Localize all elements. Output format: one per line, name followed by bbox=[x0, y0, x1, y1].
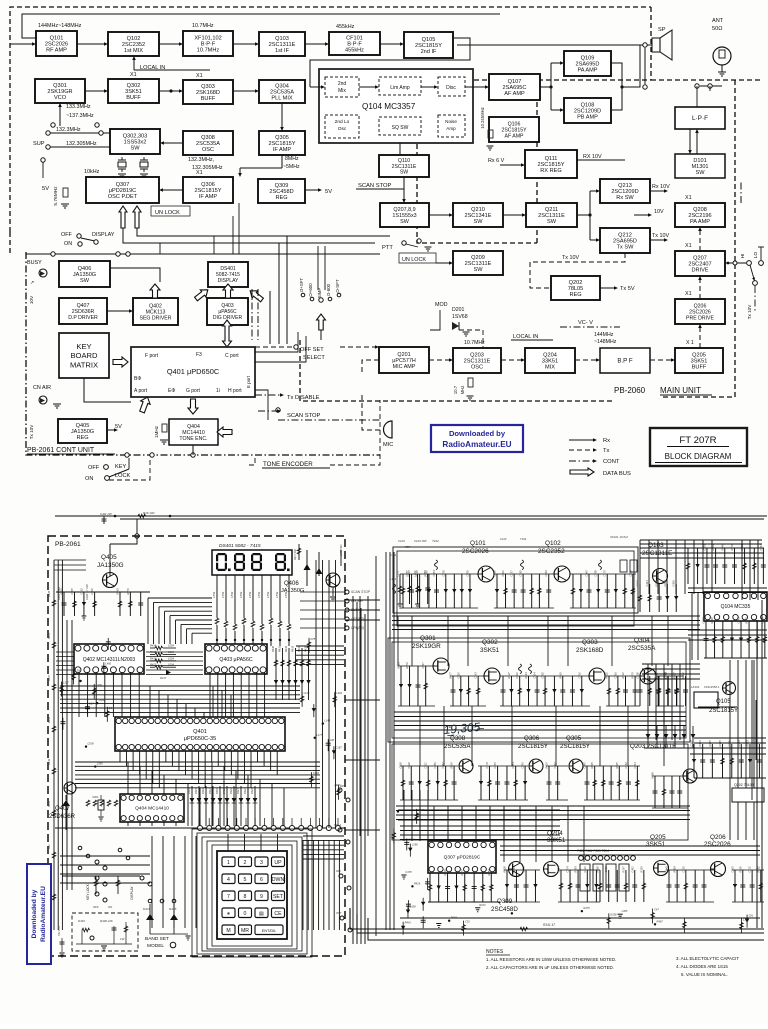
wire Q104 bottom to Q110 bbox=[399, 143, 401, 155]
svg-text:C350: C350 bbox=[433, 762, 437, 769]
svg-text:2SC1209D: 2SC1209D bbox=[574, 109, 601, 115]
svg-text:R242: R242 bbox=[636, 580, 640, 587]
svg-text:R114: R114 bbox=[621, 672, 625, 679]
svg-text:2SC1311E: 2SC1311E bbox=[538, 213, 565, 219]
wire Q405 collector up bbox=[109, 544, 111, 576]
svg-text:D416: D416 bbox=[202, 788, 205, 794]
svg-text:C165: C165 bbox=[519, 570, 523, 577]
svg-text:2SC2026: 2SC2026 bbox=[45, 42, 68, 48]
svg-text:C235: C235 bbox=[727, 740, 731, 747]
svg-text:C314: C314 bbox=[557, 866, 561, 873]
dashed border PB-2061 schematic bbox=[48, 536, 345, 956]
resistor network R414-R419 between ICs bbox=[150, 644, 176, 681]
wire keyboard down bbox=[84, 378, 131, 402]
wire Q101 to Q102 bbox=[77, 43, 105, 45]
IC Q404 MC14410 tone encoder bbox=[120, 794, 184, 822]
MIC symbol bbox=[384, 421, 392, 438]
svg-text:C41 0.01: C41 0.01 bbox=[58, 925, 61, 936]
svg-text:R41: R41 bbox=[48, 844, 51, 849]
block Q304 PLL MIX bbox=[259, 80, 305, 103]
svg-text:C392: C392 bbox=[636, 672, 640, 679]
svg-text:2SK19GR: 2SK19GR bbox=[412, 643, 441, 650]
svg-text:UN LOCK: UN LOCK bbox=[155, 210, 180, 216]
svg-text:Tx 10V: Tx 10V bbox=[652, 233, 669, 239]
block Q209 SW bbox=[453, 251, 503, 275]
svg-text:Q101: Q101 bbox=[470, 540, 486, 547]
svg-text:2SC2026: 2SC2026 bbox=[462, 548, 489, 555]
svg-text:AF AMP: AF AMP bbox=[504, 91, 525, 97]
svg-text:O-600: O-600 bbox=[326, 283, 331, 296]
block Q302 BUFF bbox=[108, 79, 159, 103]
svg-text:10.7MHz: 10.7MHz bbox=[197, 48, 220, 54]
svg-text:R105: R105 bbox=[738, 866, 742, 873]
svg-text:C481: C481 bbox=[630, 866, 634, 873]
svg-text:Q210: Q210 bbox=[471, 207, 485, 213]
PLL section box bbox=[388, 638, 690, 742]
block Q110 SW bbox=[379, 155, 429, 177]
wire Q407 to Q402 bbox=[107, 310, 130, 312]
svg-text:XF101,102: XF101,102 bbox=[194, 35, 221, 41]
svg-text:AF AMP: AF AMP bbox=[504, 133, 524, 139]
svg-text:2nd: 2nd bbox=[338, 81, 347, 87]
svg-text:Q202 78L05: Q202 78L05 bbox=[734, 783, 754, 787]
title box FT 207R BLOCK DIAGRAM bbox=[650, 428, 747, 466]
svg-text:C308: C308 bbox=[493, 570, 497, 577]
svg-text:TONE ENCODER: TONE ENCODER bbox=[263, 461, 313, 468]
keypad outer box bbox=[217, 851, 287, 939]
svg-text:2SC2407: 2SC2407 bbox=[688, 262, 711, 268]
block Q302-303 diode SW bbox=[110, 129, 160, 154]
svg-text:CONT: CONT bbox=[603, 459, 620, 465]
crystal X401 near Q404 bbox=[98, 800, 104, 810]
svg-text:MHz: MHz bbox=[460, 386, 465, 395]
inner Noise Amp bbox=[438, 115, 465, 137]
svg-text:1/8W: 1/8W bbox=[257, 591, 261, 598]
svg-text:R422: R422 bbox=[605, 672, 609, 679]
svg-text:Q105: Q105 bbox=[716, 699, 731, 705]
svg-text:PA AMP: PA AMP bbox=[577, 68, 597, 74]
svg-text:C179: C179 bbox=[485, 762, 489, 769]
svg-text:Q104 MC3357: Q104 MC3357 bbox=[362, 102, 416, 111]
svg-text:D336: D336 bbox=[610, 912, 617, 916]
block Q406 SW bbox=[59, 261, 110, 287]
svg-text:R432: R432 bbox=[285, 645, 288, 652]
svg-text:MIX: MIX bbox=[545, 365, 555, 371]
wire Q207-9 to Q210 bbox=[429, 214, 450, 216]
horizontal feeder lines from left column to display region bbox=[0, 0, 1, 1]
wire Q206 to Q207 to Q208 bbox=[699, 279, 701, 299]
hollow arrows from Q307 down bbox=[119, 206, 127, 228]
Q202 regulator box bbox=[732, 788, 764, 802]
svg-text:C315: C315 bbox=[731, 866, 735, 873]
svg-text:R441: R441 bbox=[681, 672, 685, 679]
center bottom mesh bbox=[398, 806, 560, 840]
svg-text:Tx DISABLE: Tx DISABLE bbox=[287, 395, 320, 401]
keypad column wires to connector bbox=[228, 834, 278, 851]
svg-text:L210: L210 bbox=[304, 691, 310, 695]
key lock display switch circles bbox=[86, 860, 152, 909]
svg-text:BLOCK DIAGRAM: BLOCK DIAGRAM bbox=[665, 452, 732, 461]
right column Q103-Q104 region verticals bbox=[640, 540, 764, 594]
svg-text:LO: LO bbox=[753, 252, 759, 259]
svg-text:OFF: OFF bbox=[61, 232, 72, 238]
svg-text:D410: D410 bbox=[78, 919, 85, 923]
svg-text:C352: C352 bbox=[541, 672, 545, 679]
Q307 bottom parts bbox=[429, 873, 431, 902]
svg-text:↗: ↗ bbox=[30, 280, 34, 286]
svg-text:RadioAmateur.EU: RadioAmateur.EU bbox=[40, 886, 47, 942]
svg-text:SP: SP bbox=[658, 27, 666, 33]
block Q403 DIG DRIVER bbox=[207, 298, 248, 325]
svg-text:BUFF: BUFF bbox=[201, 96, 216, 102]
svg-text:C401 0.001: C401 0.001 bbox=[57, 586, 61, 600]
svg-text:R283: R283 bbox=[655, 580, 659, 587]
svg-text:33K51: 33K51 bbox=[547, 837, 566, 844]
svg-text:L·P·F: L·P·F bbox=[692, 115, 708, 122]
svg-text:CF101: CF101 bbox=[346, 35, 363, 41]
svg-text:DISPLAY: DISPLAY bbox=[92, 232, 115, 238]
svg-text:L402: L402 bbox=[336, 691, 342, 695]
fourth row drops bbox=[504, 869, 540, 871]
svg-text:1SV68: 1SV68 bbox=[452, 314, 468, 320]
svg-text:C491: C491 bbox=[577, 672, 581, 679]
svg-text:R185: R185 bbox=[418, 808, 425, 812]
svg-text:R143: R143 bbox=[524, 672, 528, 679]
svg-text:X1: X1 bbox=[685, 243, 692, 249]
svg-text:C151: C151 bbox=[604, 866, 608, 873]
svg-text:Q304: Q304 bbox=[634, 637, 650, 644]
double bus lines bottom bbox=[350, 908, 764, 929]
mesh under PLL row bbox=[394, 712, 686, 730]
wire Q110 down to Q207 block bbox=[403, 177, 405, 200]
svg-text:R454: R454 bbox=[487, 869, 491, 876]
ground bus under fourth row bbox=[400, 917, 760, 919]
svg-text:S07-A: S07-A bbox=[334, 823, 341, 827]
extra long verticals mid bottom bbox=[504, 806, 584, 862]
extra left column parts of PB-2060 bbox=[397, 810, 399, 812]
svg-text:2SC1311E: 2SC1311E bbox=[465, 261, 492, 267]
svg-text:~5MHz: ~5MHz bbox=[283, 164, 300, 170]
wire dashed right border PB-2060 bbox=[418, 79, 651, 81]
svg-text:2SC1209D: 2SC1209D bbox=[611, 189, 638, 195]
outer dashed frame of block diagram bbox=[10, 7, 651, 232]
right column verticals PB-2061 bbox=[316, 560, 336, 828]
block Q301 VCO bbox=[35, 79, 85, 103]
svg-text:C247: C247 bbox=[421, 662, 425, 669]
svg-text:C330: C330 bbox=[613, 672, 617, 679]
top right corner drops bbox=[687, 548, 689, 584]
svg-text:C402 4.7 10V: C402 4.7 10V bbox=[85, 584, 89, 600]
svg-text:R153: R153 bbox=[479, 903, 486, 907]
svg-text:C110: C110 bbox=[500, 537, 507, 541]
svg-text:R430: R430 bbox=[272, 645, 275, 652]
svg-text:Downloaded by: Downloaded by bbox=[31, 889, 38, 938]
scattered parts left mid bbox=[60, 686, 64, 692]
svg-text:SQ SW: SQ SW bbox=[392, 125, 409, 131]
svg-text:10.245MHz: 10.245MHz bbox=[480, 107, 485, 128]
svg-text:1/8W: 1/8W bbox=[230, 591, 234, 598]
svg-text:1/8W: 1/8W bbox=[266, 591, 270, 598]
inner 2nd Mix bbox=[325, 77, 359, 97]
svg-text:RF AMP: RF AMP bbox=[46, 48, 67, 54]
wire XF101 to Q103 bbox=[233, 43, 256, 45]
svg-text:10kHz: 10kHz bbox=[84, 169, 100, 175]
svg-text:C258: C258 bbox=[423, 570, 427, 577]
block Q404 TONE ENC bbox=[169, 419, 218, 445]
svg-text:D415: D415 bbox=[169, 907, 177, 911]
connector row T401 T402 F303 T304 bbox=[577, 849, 635, 860]
svg-text:BOARD: BOARD bbox=[70, 351, 98, 360]
svg-text:Q307 μPD2819C: Q307 μPD2819C bbox=[444, 855, 481, 861]
svg-text:50Ω: 50Ω bbox=[712, 26, 722, 32]
svg-text:C250: C250 bbox=[521, 762, 525, 769]
svg-text:Q207: Q207 bbox=[693, 255, 707, 261]
transformer boxes bbox=[580, 864, 629, 891]
svg-text:O+SFT: O+SFT bbox=[299, 278, 304, 293]
Q405 bias drops bbox=[63, 592, 65, 616]
data bus line from Q307 region to right bbox=[123, 228, 375, 243]
stair from hmesh into Q401 top bbox=[150, 686, 231, 717]
svg-text:133.3MHz: 133.3MHz bbox=[66, 104, 91, 110]
svg-text:Tx 10V: Tx 10V bbox=[562, 255, 579, 261]
block D101 SW bbox=[675, 154, 725, 178]
svg-text:9: 9 bbox=[260, 894, 263, 900]
svg-text:C313: C313 bbox=[522, 866, 526, 873]
wire Q109/Q108 join to speaker bbox=[611, 63, 622, 87]
hollow arrow Q401 to Q404 bbox=[188, 399, 198, 414]
svg-text:R253: R253 bbox=[745, 740, 749, 747]
svg-text:μPD2819C: μPD2819C bbox=[109, 188, 136, 194]
svg-text:R475: R475 bbox=[583, 906, 590, 910]
svg-text:C332: C332 bbox=[407, 762, 411, 769]
svg-text:RX 10V: RX 10V bbox=[583, 154, 602, 160]
svg-text:A port: A port bbox=[134, 388, 148, 394]
svg-text:R188: R188 bbox=[558, 672, 562, 679]
svg-text:2SC1815Y: 2SC1815Y bbox=[537, 162, 564, 168]
extra rails above fourth row bbox=[500, 846, 760, 855]
verticals from bus down to keyboard connector bbox=[128, 762, 284, 826]
svg-text:CE: CE bbox=[274, 911, 282, 917]
svg-text:2SC535A: 2SC535A bbox=[444, 743, 471, 750]
svg-text:R417: R417 bbox=[150, 663, 157, 667]
cap near band set box bbox=[58, 925, 65, 957]
svg-text:2SC2352: 2SC2352 bbox=[538, 548, 565, 555]
svg-text:VC- V: VC- V bbox=[578, 320, 593, 326]
svg-text:B.P F: B.P F bbox=[617, 358, 633, 365]
svg-text:Q405: Q405 bbox=[76, 423, 90, 429]
svg-text:Q302: Q302 bbox=[127, 83, 141, 89]
svg-text:KEY: KEY bbox=[76, 342, 91, 351]
svg-text:D423: D423 bbox=[251, 788, 254, 794]
svg-text:C482: C482 bbox=[99, 698, 106, 702]
svg-text:Q306: Q306 bbox=[201, 182, 215, 188]
gap wires between units bbox=[345, 596, 380, 836]
svg-text:2SA695C: 2SA695C bbox=[503, 85, 527, 91]
right column mid verticals bbox=[730, 660, 762, 840]
svg-text:455kHz: 455kHz bbox=[336, 24, 355, 30]
svg-text:X1: X1 bbox=[196, 170, 203, 176]
svg-text:Q302: Q302 bbox=[482, 639, 498, 646]
svg-text:R372: R372 bbox=[405, 662, 409, 669]
svg-text:FT 207R: FT 207R bbox=[679, 435, 716, 446]
svg-text:MAIN UNIT: MAIN UNIT bbox=[660, 386, 701, 395]
svg-text:RadioAmateur.EU: RadioAmateur.EU bbox=[442, 440, 511, 449]
wire Q404 tone out bbox=[192, 445, 194, 455]
svg-text:Q208: Q208 bbox=[693, 207, 707, 213]
svg-text:1MHz: 1MHz bbox=[154, 425, 159, 438]
svg-text:L266: L266 bbox=[97, 762, 103, 766]
IC Q403 digit driver bbox=[205, 644, 267, 674]
block Q208 PA AMP bbox=[675, 203, 725, 227]
inner Disc bbox=[438, 77, 465, 96]
svg-text:Q404 MC14410: Q404 MC14410 bbox=[135, 806, 169, 812]
svg-text:C321: C321 bbox=[424, 762, 428, 769]
svg-text:BUSY: BUSY bbox=[27, 260, 42, 266]
svg-text:2SC1815Y: 2SC1815Y bbox=[268, 141, 295, 147]
svg-text:C366: C366 bbox=[702, 617, 706, 624]
block Q106 AF AMP bbox=[489, 117, 539, 142]
horizontal bus under Q401 bbox=[75, 762, 320, 788]
scattered parts fourth row bbox=[607, 917, 611, 923]
block Q307 OSC P.DET bbox=[86, 177, 159, 203]
svg-text:R127: R127 bbox=[507, 672, 511, 679]
svg-text:G port: G port bbox=[186, 388, 201, 394]
double-headed data arrow Q403 to Q401 bbox=[223, 320, 232, 347]
svg-text:7: 7 bbox=[227, 894, 230, 900]
svg-text:4. ALL DIODES ARE 1S15: 4. ALL DIODES ARE 1S15 bbox=[676, 964, 728, 969]
svg-text:CAR 1W: CAR 1W bbox=[100, 512, 113, 516]
svg-text:C131: C131 bbox=[748, 866, 752, 873]
svg-text:Q309: Q309 bbox=[275, 183, 289, 189]
svg-text:R138: R138 bbox=[639, 866, 643, 873]
svg-text:SW: SW bbox=[130, 146, 140, 152]
PLL row drops bbox=[398, 665, 435, 667]
svg-text:μPD650C-35: μPD650C-35 bbox=[184, 736, 216, 742]
svg-text:2SC535A: 2SC535A bbox=[270, 90, 294, 96]
svg-text:MATRIX: MATRIX bbox=[70, 360, 98, 369]
svg-text:Tx 5V: Tx 5V bbox=[620, 286, 635, 292]
svg-text:Disc: Disc bbox=[446, 85, 456, 91]
svg-text:R226: R226 bbox=[503, 866, 507, 873]
svg-text:1SS53x2: 1SS53x2 bbox=[124, 140, 147, 146]
hollow arrow keyboard to Q401 bbox=[113, 357, 128, 367]
wire 2nd mix to lim amp bbox=[359, 86, 376, 88]
svg-text:D101: D101 bbox=[693, 158, 706, 164]
inner SQ SW bbox=[379, 117, 421, 135]
svg-text:OFF: OFF bbox=[88, 465, 100, 471]
svg-text:1/8W: 1/8W bbox=[248, 591, 252, 598]
svg-text:D414: D414 bbox=[143, 907, 151, 911]
svg-text:X1: X1 bbox=[685, 195, 692, 201]
svg-text:3SK51: 3SK51 bbox=[480, 647, 500, 654]
svg-text:EΦ: EΦ bbox=[168, 388, 175, 394]
dashed border PB-2061 control unit bbox=[26, 252, 120, 455]
wire LPF to D101 and ANT bbox=[689, 129, 691, 151]
svg-text:2SC1311E: 2SC1311E bbox=[464, 359, 491, 365]
transistor Q105 with label bbox=[723, 682, 736, 695]
top right corner rails bbox=[640, 540, 762, 544]
svg-text:UP: UP bbox=[274, 860, 282, 866]
svg-text:C103: C103 bbox=[398, 539, 405, 543]
svg-text:OSC: OSC bbox=[471, 365, 483, 371]
svg-text:PTT: PTT bbox=[382, 245, 393, 251]
svg-text:Rx: Rx bbox=[603, 438, 610, 444]
svg-text:C405: C405 bbox=[465, 570, 469, 577]
svg-text:D421: D421 bbox=[237, 788, 240, 794]
block Q309 REG bbox=[258, 179, 305, 203]
svg-text:SCAN STOP: SCAN STOP bbox=[351, 590, 371, 594]
block Q109 PA AMP bbox=[564, 51, 611, 76]
svg-text:Tx 10V: Tx 10V bbox=[747, 304, 752, 319]
svg-text:C244: C244 bbox=[663, 580, 667, 587]
svg-text:SW: SW bbox=[80, 278, 90, 284]
svg-text:VCO: VCO bbox=[54, 95, 67, 101]
UN LOCK label bbox=[151, 206, 190, 216]
svg-text:Q309: Q309 bbox=[497, 898, 513, 905]
wire Q405 5V bbox=[107, 429, 115, 431]
svg-text:C342: C342 bbox=[584, 570, 588, 577]
svg-text:R495: R495 bbox=[718, 740, 722, 747]
svg-text:Tx: Tx bbox=[603, 448, 610, 454]
wire Q305 down to Q306 bbox=[281, 155, 283, 168]
block Q202 REG bbox=[551, 276, 600, 300]
svg-text:C17: C17 bbox=[89, 702, 94, 706]
svg-text:Q209: Q209 bbox=[471, 255, 485, 261]
block Q401 uPD650C CPU bbox=[131, 347, 255, 397]
front end row components bbox=[400, 573, 478, 575]
svg-text:M1301: M1301 bbox=[691, 164, 708, 170]
diodes D414 D415 above band set bbox=[143, 899, 191, 940]
svg-text:SET: SET bbox=[273, 894, 284, 900]
svg-text:Q109: Q109 bbox=[581, 55, 595, 61]
wire LOCAL IN into Q102 bbox=[133, 59, 135, 70]
svg-text:C326: C326 bbox=[399, 762, 403, 769]
svg-text:R433: R433 bbox=[292, 645, 295, 652]
svg-text:R29: R29 bbox=[340, 784, 345, 788]
wire VCO tune arrow bbox=[59, 106, 61, 126]
svg-text:2SA695D: 2SA695D bbox=[613, 239, 637, 245]
svg-text:Q213: Q213 bbox=[618, 183, 632, 189]
svg-text:L101: L101 bbox=[390, 577, 396, 581]
svg-text:MOD: MOD bbox=[435, 302, 448, 308]
svg-text:∗: ∗ bbox=[226, 911, 230, 917]
svg-text:SEG DRIVER: SEG DRIVER bbox=[140, 315, 172, 321]
svg-text:D422: D422 bbox=[244, 788, 247, 794]
extra drops between Q205 and transformers bbox=[599, 870, 601, 902]
svg-text:L298: L298 bbox=[412, 843, 418, 847]
svg-text:SW: SW bbox=[547, 219, 557, 225]
svg-text:SW: SW bbox=[400, 219, 410, 225]
middle interconnect wires bbox=[160, 203, 325, 420]
svg-text:D201: D201 bbox=[452, 307, 465, 313]
svg-text:C47: C47 bbox=[654, 907, 659, 911]
svg-text:2SK168D: 2SK168D bbox=[196, 90, 220, 96]
svg-text:6: 6 bbox=[260, 877, 263, 883]
svg-text:Tx 10V: Tx 10V bbox=[29, 424, 34, 439]
svg-text:R436 22K: R436 22K bbox=[100, 919, 114, 923]
svg-text:C182: C182 bbox=[624, 762, 628, 769]
wire speaker line nodes bbox=[643, 85, 647, 89]
wire Q301 to Q302 bbox=[85, 90, 105, 92]
wires above Q307 bbox=[400, 790, 560, 841]
svg-text:144MHz~148MHz: 144MHz~148MHz bbox=[38, 23, 82, 29]
svg-text:Tx SW: Tx SW bbox=[617, 245, 634, 251]
block Q103 1st IF bbox=[259, 32, 305, 56]
Downloaded by RadioAmateur.EU box top bbox=[431, 425, 523, 452]
keypad keys grid bbox=[222, 857, 285, 935]
block Q305 IF AMP bbox=[259, 131, 305, 155]
svg-text:LAMP 601: LAMP 601 bbox=[340, 544, 343, 556]
